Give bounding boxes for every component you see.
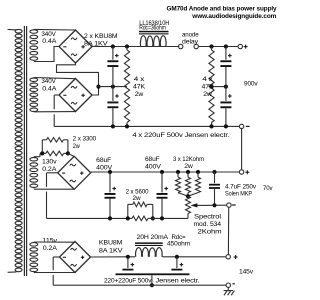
junction 145 cap1 xyxy=(126,255,130,259)
inductor L1 LL1638 core xyxy=(139,31,169,35)
terminal 900v positive xyxy=(238,44,248,48)
junction ground rail xyxy=(150,283,154,287)
potentiometer VR1 Spectrol 2Kohm xyxy=(186,196,191,218)
svg-text:400V: 400V xyxy=(96,164,113,171)
inductor L1 LL1638 coil xyxy=(140,36,166,47)
wire top rail xyxy=(92,46,179,48)
wire mid rail right xyxy=(212,86,226,88)
wire switch to right rail xyxy=(198,46,238,48)
svg-text:delay: delay xyxy=(182,38,199,45)
wire 900v negative rail xyxy=(54,125,239,127)
secondary winding S2 340V 0.4A xyxy=(30,78,38,112)
terminal 145v negative xyxy=(226,283,235,287)
potentiometer VR1 wiper xyxy=(191,203,227,207)
svg-text:anode: anode xyxy=(182,31,199,38)
wire B3 - drop xyxy=(47,173,58,219)
wire mid node to B2 + xyxy=(92,87,99,95)
label R3/R4 value xyxy=(73,136,97,151)
terminal 70v positive xyxy=(239,170,249,174)
wire B4 - drop xyxy=(53,257,59,285)
svg-text:70v: 70v xyxy=(263,185,273,192)
wire bias bottom rail right xyxy=(148,217,188,219)
junction 5600 left xyxy=(126,216,130,220)
junction pot top xyxy=(186,194,190,198)
svg-text:Spectrol: Spectrol xyxy=(194,213,221,220)
label R1 value xyxy=(133,76,146,98)
junction b0 cap2 xyxy=(224,124,228,128)
wire S2 bottom to B2 ~ xyxy=(34,111,76,113)
label 70v xyxy=(263,185,273,192)
junction cap chain mid xyxy=(111,85,115,89)
bridge rectifier B1 KBU8M xyxy=(59,30,92,63)
ground xyxy=(224,287,235,295)
resistor R2 4x47K bleeder xyxy=(209,47,214,127)
wire 900v- to 70v+ link xyxy=(241,129,243,170)
svg-text:340V: 340V xyxy=(41,31,56,38)
wire S2 top to B2 ~ xyxy=(34,78,76,79)
junction right mid cap xyxy=(224,85,228,89)
label 900v xyxy=(244,81,258,88)
wire B4 + to rail xyxy=(91,256,136,258)
wire bias bottom rail left xyxy=(47,217,133,219)
junction right rail cap xyxy=(224,44,228,48)
secondary winding S1 340V 0.4A xyxy=(30,30,38,61)
svg-text:4 x 220uF 500v Jensen electr.: 4 x 220uF 500v Jensen electr. xyxy=(132,132,229,139)
secondary winding S3 130v 0.2A xyxy=(30,158,38,188)
label VR1 value xyxy=(194,213,222,235)
wire 145 rail right xyxy=(163,256,227,258)
label S1 value xyxy=(41,31,57,45)
label C7 value xyxy=(225,184,257,198)
svg-text:400V: 400V xyxy=(145,163,162,170)
terminal 70v negative xyxy=(227,203,236,207)
svg-text:2 x 3300: 2 x 3300 xyxy=(73,136,97,143)
label R5-R7 value xyxy=(173,156,204,170)
svg-text:4 x: 4 x xyxy=(202,76,214,83)
resistor R5 12Kohm xyxy=(176,170,181,193)
capacitor C2 220uF xyxy=(107,87,118,127)
label B4 value xyxy=(99,240,124,255)
svg-text:0.4A: 0.4A xyxy=(42,86,57,93)
label S4 value xyxy=(43,238,59,253)
svg-text:4.7uF 250v: 4.7uF 250v xyxy=(225,184,257,191)
svg-text:900v: 900v xyxy=(244,81,258,88)
resistor R3 2x3300 parallel A xyxy=(42,138,68,154)
switch SW1 anode delay xyxy=(179,44,199,48)
svg-text:mod. 534: mod. 534 xyxy=(194,221,222,228)
svg-text:20H 20mA: 20H 20mA xyxy=(137,234,169,241)
svg-text:3 x 12Kohm: 3 x 12Kohm xyxy=(173,156,204,163)
svg-text:450ohm: 450ohm xyxy=(167,241,190,248)
label C5 value xyxy=(96,157,113,171)
svg-text:130v: 130v xyxy=(42,159,58,166)
label S2 value xyxy=(41,78,57,92)
svg-text:68uF: 68uF xyxy=(145,156,160,163)
resistor R6 12Kohm xyxy=(186,170,191,193)
svg-text:2 x KBU8M: 2 x KBU8M xyxy=(84,33,118,40)
svg-text:2w: 2w xyxy=(203,91,212,98)
wire mid rail left xyxy=(99,86,128,88)
wire ground rail xyxy=(53,284,226,286)
svg-text:2Kohm: 2Kohm xyxy=(198,229,222,236)
label B1/B2 value xyxy=(84,33,118,48)
resistor R7 12Kohm xyxy=(196,170,201,193)
wire S4 top to B4 ~ xyxy=(34,241,75,243)
label L2 value xyxy=(137,234,191,248)
svg-text:145v: 145v xyxy=(239,269,254,276)
svg-text:0.4A: 0.4A xyxy=(42,38,57,45)
svg-text:0.2A: 0.2A xyxy=(43,245,58,252)
wire 12K join xyxy=(178,193,198,197)
label S3 value xyxy=(42,159,58,173)
svg-text:220+220uF 500v: 220+220uF 500v xyxy=(104,277,152,284)
title line 1 xyxy=(167,6,278,21)
junction 145 cap2 xyxy=(175,255,179,259)
capacitor C4 220uF xyxy=(220,87,231,127)
resistor R4 2x3300 parallel B xyxy=(42,151,68,156)
label C6 value xyxy=(145,156,162,170)
svg-text:115v: 115v xyxy=(43,238,59,245)
capacitor C9 220uF xyxy=(171,257,183,271)
bridge rectifier B4 KBU8M xyxy=(60,242,91,273)
wire S3 bottom to B3 ~ xyxy=(34,188,74,190)
wire S1 bottom to B1 ~ xyxy=(34,47,59,62)
junction bb c5 xyxy=(108,216,112,220)
label SW1 xyxy=(182,31,199,45)
capacitor C6 68uF 400V xyxy=(157,170,169,219)
svg-text:Solen MKP: Solen MKP xyxy=(225,191,252,198)
svg-text:4 x: 4 x xyxy=(134,76,146,83)
junction right mid res xyxy=(209,85,213,89)
junction top rail res xyxy=(125,44,129,48)
wire 70v rail xyxy=(91,171,240,173)
junction b0 res1 xyxy=(125,124,129,128)
capacitor C1 220uF xyxy=(107,47,118,87)
capacitor C8 220uF xyxy=(122,257,134,271)
wire 3300 to B3 ~ xyxy=(68,153,74,156)
svg-text:Jensen electr.: Jensen electr. xyxy=(156,277,200,284)
resistor R8 5600 inline xyxy=(132,216,148,221)
wire B2 - drop xyxy=(54,95,59,126)
capacitor C5 68uF 400V xyxy=(105,170,117,219)
junction b0 cap1 xyxy=(111,124,115,128)
inductor L2 20H core xyxy=(135,242,163,246)
bridge rectifier B3 KBU8M xyxy=(58,156,91,189)
label 145v xyxy=(239,269,254,276)
svg-text:Rdc=36ohm: Rdc=36ohm xyxy=(139,25,166,32)
svg-text:GM70d Anode and bias power su: GM70d Anode and bias power supply xyxy=(167,6,278,13)
svg-text:2w: 2w xyxy=(73,143,80,150)
svg-text:340V: 340V xyxy=(41,78,56,85)
transformer T1 primary winding xyxy=(15,29,22,271)
label R8/R9 value xyxy=(126,188,149,202)
wire primary bottom lead xyxy=(8,271,17,273)
svg-text:2w: 2w xyxy=(135,91,144,98)
junction 3300 left xyxy=(40,151,44,155)
svg-text:8A 1KV: 8A 1KV xyxy=(99,247,124,254)
svg-text:2w: 2w xyxy=(133,195,142,202)
junction 5600 right xyxy=(151,216,155,220)
junction bb c6 xyxy=(160,216,164,220)
resistor R1 4x47K bleeder xyxy=(124,47,129,127)
wire S4 bottom to B4 ~ xyxy=(34,272,75,274)
label C1-C4 value xyxy=(132,132,229,139)
wire S3 top to resistors xyxy=(34,153,43,156)
wire B1 - to mid node xyxy=(57,63,99,87)
resistor R9 5600 raised xyxy=(128,202,153,218)
terminal 900v negative xyxy=(239,124,249,128)
junction mid node xyxy=(96,85,100,89)
svg-text:2w: 2w xyxy=(184,163,193,170)
terminal 145v positive xyxy=(226,255,238,259)
wire 70v- to 145v+ link xyxy=(227,207,229,255)
secondary winding S4 115v 0.2A xyxy=(30,243,38,272)
svg-text:0.2A: 0.2A xyxy=(42,166,57,173)
junction top rail cap xyxy=(111,44,115,48)
junction right rail res xyxy=(209,44,213,48)
wire S1 top to B1 ~ xyxy=(34,28,76,31)
wire shared cap plate xyxy=(116,273,190,275)
junction b0 res2 xyxy=(209,124,213,128)
wire primary top lead xyxy=(8,28,17,31)
wire cap center drop xyxy=(151,275,153,285)
svg-text:KBU8M: KBU8M xyxy=(99,240,122,247)
junction 3300 right xyxy=(66,151,70,155)
capacitor C3 220uF xyxy=(220,47,231,87)
capacitor C7 4.7uF Solen xyxy=(209,170,220,208)
label R2 value xyxy=(202,76,215,98)
svg-text:68uF: 68uF xyxy=(96,157,111,164)
bridge rectifier B2 KBU8M xyxy=(59,79,92,112)
inductor L2 20H coil xyxy=(136,248,163,257)
transformer T1 core xyxy=(24,26,26,276)
label L1 value xyxy=(139,20,169,31)
svg-text:47K: 47K xyxy=(133,83,146,90)
label C8/C9 value xyxy=(104,277,200,284)
svg-text:www.audiodesignguide.com: www.audiodesignguide.com xyxy=(191,13,277,20)
